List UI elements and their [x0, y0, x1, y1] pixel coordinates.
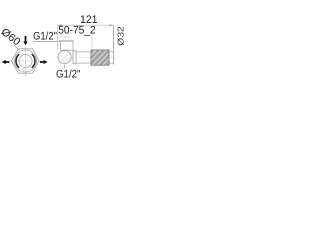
front view centerline horizontal — [10, 60, 41, 62]
knurl hatch — [59, 51, 71, 64]
bold arrow pointing right — [40, 60, 48, 64]
Ø60 leader line — [14, 45, 20, 51]
front view centerline vertical — [25, 47, 27, 77]
121 dim arrowheads — [58, 24, 62, 26]
121 left extension line — [57, 24, 59, 50]
inner thread circle — [19, 54, 32, 67]
bold right arc — [32, 54, 35, 68]
leader underline to top port — [33, 40, 59, 42]
top port body — [61, 41, 74, 50]
hex nut outline (front view) — [12, 49, 40, 73]
outer chamfer circle — [15, 50, 37, 72]
dimension line 121 — [58, 24, 114, 26]
bold arrow pointing left — [2, 60, 10, 64]
pipe top line — [76, 51, 113, 53]
pipe end cap / Ø32 dimension line — [113, 25, 115, 64]
dimension line 50-75 — [58, 36, 71, 38]
wall block (hatched) — [91, 50, 109, 65]
svg-text:Ø32: Ø32 — [116, 26, 126, 46]
flange step — [73, 51, 76, 64]
bold left arc — [16, 54, 19, 68]
pipe bottom line — [76, 62, 113, 64]
top port lip — [59, 40, 74, 42]
extension line wall face — [91, 35, 93, 50]
svg-text:G1/2": G1/2" — [56, 69, 81, 81]
leader to bottom G1/2 — [63, 64, 65, 68]
svg-text:G1/2": G1/2" — [33, 31, 57, 43]
bold arrow pointing down — [23, 36, 27, 45]
pipe centerline — [55, 56, 116, 58]
knurled nut circle (side view) — [58, 51, 71, 64]
svg-text:50-75_2: 50-75_2 — [58, 25, 95, 37]
